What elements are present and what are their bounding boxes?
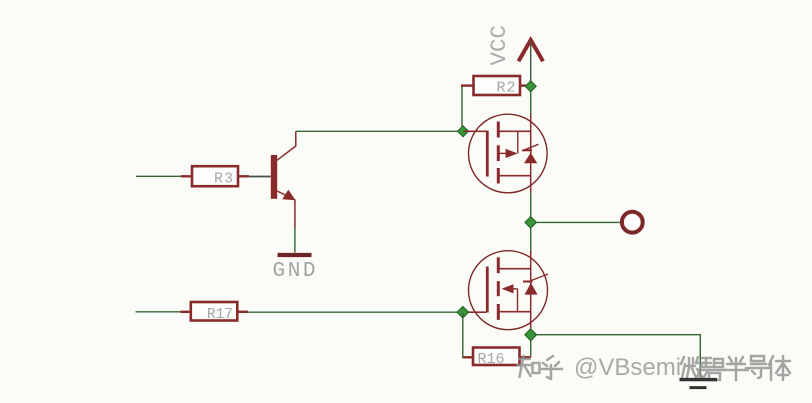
mosfet Q2 N-channel (bottom) (464, 251, 549, 330)
body diode cathode diagonal (530, 274, 548, 281)
label R3 (214, 171, 234, 188)
resistor R16 (463, 348, 531, 366)
svg-text:R16: R16 (478, 351, 505, 368)
char 导 (746, 356, 770, 378)
svg-text:R2: R2 (496, 79, 516, 96)
substrate arrow tail (498, 152, 506, 154)
body diode cathode bar (523, 149, 533, 151)
gate bar (486, 131, 489, 177)
wire N-MOSFET source down (530, 330, 532, 358)
mosfet Q1 P-channel (top) (464, 114, 548, 193)
channel dash top (497, 122, 500, 138)
channel dash middle (497, 281, 500, 296)
label R17 (207, 307, 233, 323)
emitter line (277, 191, 295, 228)
watermark 知乎 @VBsemi微碧半导体 (518, 354, 791, 381)
wire VCC pin down to junction (530, 41, 532, 86)
substrate arrow (points right, P-channel) (506, 149, 518, 158)
junction J4 at N-MOSFET gate (457, 307, 469, 319)
drain internal line (top) (498, 268, 530, 270)
drain internal line (bottom) (498, 175, 530, 177)
resistor R2 (461, 76, 528, 95)
junction J1 at R2/VCC (525, 81, 536, 92)
body diode cathode bar (523, 281, 533, 283)
gate pin (464, 130, 487, 132)
net label VCC (486, 25, 512, 66)
body diode cathode diagonal (522, 144, 539, 151)
source internal line (bottom) (498, 311, 530, 313)
output pad (open circle) (622, 212, 643, 233)
wire long horizontal collector to P-MOSFET gate (296, 130, 463, 132)
wire R17 to N-MOSFET gate junction (248, 311, 463, 313)
ground GND (278, 253, 312, 257)
power VCC arrow (520, 40, 543, 60)
wire input 2 (136, 311, 181, 313)
wire output to pad (535, 221, 621, 223)
wire VCC line down to P-MOSFET drain (530, 86, 532, 114)
junction J2 at P-MOSFET gate (457, 126, 468, 137)
resistor R17 (181, 302, 249, 321)
body diode anode triangle (525, 283, 538, 295)
junction J3 output node (525, 217, 537, 229)
body diode anode triangle (524, 153, 537, 164)
label R2 (496, 79, 516, 96)
wire gate junction down to R16 left (463, 313, 473, 357)
substrate arrow tail (513, 288, 518, 290)
body circle (469, 114, 548, 193)
char 乎 (540, 356, 562, 379)
substrate to source stub (517, 131, 519, 153)
label GND (273, 260, 319, 283)
wire source junction right and down to ground 2 (535, 335, 700, 378)
char 碧 (701, 358, 725, 380)
wire P-MOSFET drain to output junction to N-MOSFET drain (530, 193, 532, 251)
svg-text:GND: GND (273, 260, 319, 283)
char 微 (681, 357, 703, 378)
body circle (469, 251, 548, 330)
wire R2 left down to gate junction (461, 87, 463, 132)
gate bar (486, 267, 489, 313)
channel dash bottom (497, 304, 500, 320)
wire emitter to ground (294, 228, 296, 253)
transistor Q3 NPN (249, 131, 296, 228)
base pin (249, 176, 271, 178)
collector pin (277, 131, 296, 160)
internal vertical axis (530, 251, 532, 330)
source internal line (top) (498, 130, 530, 132)
emitter arrow (282, 190, 295, 201)
substrate to source stub (517, 289, 519, 312)
base bar (271, 155, 277, 199)
svg-text:VCC: VCC (486, 25, 512, 66)
channel dash middle (497, 145, 500, 161)
char 体 (769, 356, 790, 380)
channel dash bottom (497, 168, 500, 184)
label R16 (478, 351, 505, 368)
resistor R3 (181, 166, 249, 186)
char 知 (518, 356, 540, 377)
substrate arrow (points left, N-channel) (502, 284, 514, 293)
svg-text:@VBsemi: @VBsemi (574, 354, 681, 381)
char 半 (724, 357, 748, 380)
channel dash top (497, 257, 500, 273)
internal vertical axis (530, 115, 532, 193)
wire input 1 (136, 175, 181, 177)
gate pin (464, 311, 487, 313)
junction J5 at source/R16 (525, 329, 537, 341)
svg-text:R17: R17 (207, 307, 233, 323)
svg-text:R3: R3 (214, 171, 234, 188)
ground 2 (earth) (680, 380, 718, 388)
